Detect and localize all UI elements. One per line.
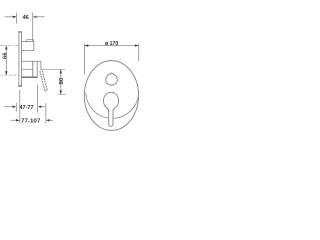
dim 77-107 right arrowhead	[46, 119, 50, 121]
dim 80 dimension line	[60, 69, 62, 94]
main body bottom edge (dark)	[22, 76, 38, 78]
dim 66 up arrowhead	[5, 46, 7, 50]
lever handle disc front view	[104, 92, 119, 126]
cartridge internal horizontal	[22, 68, 33, 70]
svg-text:46: 46	[22, 15, 29, 21]
dim ø170 left extension line	[84, 44, 86, 75]
pill tab on top box	[26, 40, 33, 42]
dim 46 right arrowhead	[33, 16, 37, 18]
dim 46 dimension line left tail	[5, 16, 17, 18]
lever dashed (swung position)	[40, 71, 48, 92]
dim 77-107 left tail	[11, 119, 17, 121]
cartridge internal vertical	[32, 61, 34, 77]
svg-text:47-77: 47-77	[20, 105, 34, 111]
dim 80 top tick	[41, 68, 65, 70]
wall plate bottom cap	[18, 85, 22, 86]
wall plate side view	[19, 32, 22, 86]
dim ø170 right extension line	[138, 44, 140, 62]
dim 80 up arrowhead	[60, 70, 62, 74]
dim 46 left extension tick	[16, 13, 18, 24]
dim 77-107 left arrowhead	[16, 119, 20, 121]
dim 46 left arrowhead	[13, 16, 17, 18]
dim ø170 left arrowhead	[85, 44, 89, 46]
dim 47-77 left arrowhead	[13, 106, 17, 108]
dim 47-77 left tail	[4, 106, 13, 108]
dim ø170 right arrowhead	[135, 44, 139, 46]
front view: dim ø170 line	[85, 45, 139, 47]
dim 46 right extension tick	[32, 13, 34, 41]
dashed line bottom of 66 dim	[0, 74, 19, 76]
dim 47-77 right tick	[37, 85, 39, 113]
plate inner edge arc (lower)	[86, 93, 138, 119]
wall plate top cap	[18, 31, 22, 32]
svg-text:77-107: 77-107	[21, 119, 40, 125]
svg-text:80: 80	[59, 78, 65, 85]
extension line below plate front	[19, 90, 21, 124]
top connection box side view	[22, 42, 34, 51]
centerline dash-dot at valve axis	[0, 45, 19, 47]
dim 66 dimension line	[5, 46, 7, 76]
dim 77-107 right tail	[50, 119, 53, 121]
main body side view	[22, 61, 42, 77]
dim 80 bottom tick (lever tip level)	[58, 93, 66, 95]
dim 47-77 left tick	[15, 103, 17, 112]
svg-text:66: 66	[2, 52, 8, 59]
extension line lever tip vertical	[45, 103, 47, 124]
cover plate ellipse front view	[84, 61, 138, 131]
diverter knob front view	[106, 73, 118, 85]
dim 66 down arrowhead	[5, 71, 7, 75]
dim 47-77 right arrowhead	[38, 106, 42, 108]
dim 47-77 right tail	[42, 106, 46, 108]
dim 46 dimension line right tail	[33, 16, 45, 18]
svg-text:ø 170: ø 170	[105, 41, 118, 47]
dim 80 down arrowhead	[60, 91, 62, 95]
